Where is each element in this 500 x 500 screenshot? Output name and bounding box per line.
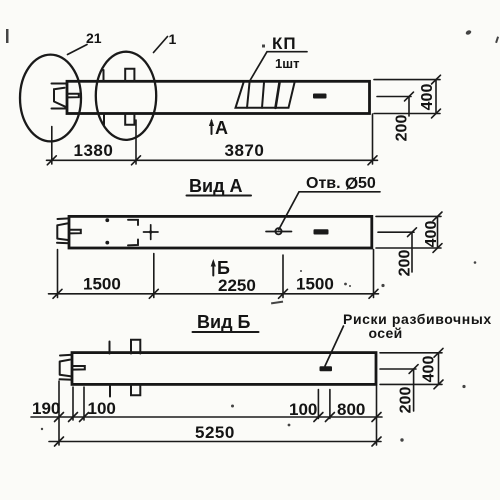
leader for riski label	[325, 326, 344, 366]
label 1	[169, 31, 177, 47]
view A: small fixture mark on beam	[314, 229, 329, 234]
plan view: beam body outline	[67, 81, 370, 113]
view B: overall dimension slash ticks	[55, 437, 382, 446]
svg-text:А: А	[215, 118, 228, 138]
plan view: right top extension line	[374, 79, 440, 81]
view B: beam body outline	[72, 353, 376, 385]
view A: tenon T-slot detail	[69, 230, 81, 234]
plan view: 400 dimension text	[419, 84, 436, 111]
view B: 400 dimension line	[434, 348, 443, 388]
view A: extension line at 2250	[282, 255, 284, 298]
view B: left tenon	[60, 355, 73, 380]
KP embedded plate hatch	[236, 83, 295, 108]
svg-text:1шт: 1шт	[275, 56, 299, 71]
svg-text:3870: 3870	[225, 141, 265, 160]
label riski razbivochnykh osey	[343, 311, 492, 341]
view B: right top extension line	[380, 352, 442, 354]
view A: 200 dimension text	[397, 250, 414, 277]
plan view: extension line at 1380	[135, 120, 137, 164]
view B: bottom lifting loop	[131, 384, 140, 395]
view B: tenon T-slot detail	[72, 366, 85, 370]
view B: 200 dimension text	[398, 387, 415, 414]
svg-text:Риски разбивочных: Риски разбивочных	[343, 311, 492, 327]
view A: bottom dimension line	[49, 293, 379, 295]
view A: extension line right	[373, 250, 375, 298]
svg-text:Б: Б	[217, 258, 230, 278]
svg-text:Вид А: Вид А	[189, 176, 243, 196]
plan view: bottom lifting loop	[125, 114, 134, 125]
plan view: axis tick marks at x=102	[103, 70, 106, 125]
view B: extension line riska right	[329, 390, 331, 419]
svg-text:21: 21	[86, 30, 102, 46]
view A: center cross marker	[144, 225, 159, 240]
leader for KP label	[250, 52, 307, 81]
view A: left tenon	[57, 218, 69, 243]
view A: 400 dimension text	[423, 221, 440, 248]
view B: right extension line long	[376, 386, 378, 445]
svg-text:100: 100	[88, 399, 116, 418]
svg-text:200: 200	[394, 115, 411, 142]
plan view: right mid extension line (200 level)	[377, 96, 411, 98]
view B: 200 dimension line	[409, 365, 418, 411]
view B: right mid extension line	[380, 368, 416, 370]
plan view: dimension slash ticks	[47, 156, 377, 165]
svg-text:1380: 1380	[74, 141, 114, 160]
view A: right top extension line	[376, 215, 441, 217]
svg-text:400: 400	[419, 84, 436, 111]
svg-text:1: 1	[169, 31, 177, 47]
leader for label 21	[68, 45, 88, 55]
view A: hole (Otv d50)	[266, 228, 292, 234]
view B: chain dimension line	[31, 416, 382, 418]
plan view: left tenon stub lines	[52, 84, 68, 109]
dimension text 800	[337, 400, 365, 419]
view B: extension line at 100 left	[83, 387, 85, 420]
view A: beam body outline	[69, 216, 372, 248]
view A: hidden plate dashed corners	[128, 220, 138, 246]
svg-text:Вид Б: Вид Б	[197, 312, 250, 332]
plan view: right bottom extension line	[374, 113, 440, 115]
dimension text 100 right	[289, 400, 317, 419]
view B: top lifting loop	[131, 340, 140, 354]
dimension text 1380	[74, 141, 114, 160]
plan view: tenon T-slot detail	[67, 94, 79, 98]
view B: chain dimension slash ticks	[55, 413, 382, 422]
view B: overall dimension line 5250	[49, 441, 381, 443]
svg-text:осей: осей	[369, 325, 403, 341]
view A title	[187, 176, 252, 196]
view A: extension line at 1500	[153, 254, 155, 298]
leader for Otv label	[279, 192, 380, 230]
plan view: extension line below ellipse 21	[51, 127, 53, 165]
svg-text:1500: 1500	[296, 275, 334, 294]
dimension text 3870	[225, 141, 265, 160]
svg-text:КП: КП	[272, 34, 297, 53]
label Otv d50	[306, 174, 376, 193]
label 1sht	[275, 56, 299, 71]
view A: section arrow B	[211, 258, 230, 278]
label KP	[272, 34, 297, 53]
svg-text:400: 400	[421, 356, 438, 383]
view A: right mid extension line	[378, 231, 414, 233]
plan view: 200 dimension text	[394, 115, 411, 142]
callout ellipse 21	[20, 55, 81, 142]
view A: right bottom extension line	[376, 247, 441, 249]
svg-text:Отв.: Отв.	[306, 175, 341, 192]
dimension text 100 left	[88, 399, 116, 418]
svg-text:190: 190	[32, 399, 60, 418]
dimension text 1500 right	[296, 275, 334, 294]
svg-text:2250: 2250	[218, 276, 256, 295]
plan view: top lifting loop	[125, 69, 134, 81]
plan view: section arrow A	[209, 118, 228, 138]
svg-text:1500: 1500	[83, 275, 121, 294]
svg-text:100: 100	[289, 400, 317, 419]
view B title	[193, 312, 259, 332]
svg-text:800: 800	[337, 400, 365, 419]
view A: extension line left	[57, 250, 59, 298]
svg-text:50: 50	[358, 175, 376, 192]
plan view: bottom dimension line	[47, 159, 378, 161]
view B: right bottom extension line	[380, 383, 442, 385]
view B: left extension line long	[58, 381, 60, 445]
svg-text:200: 200	[398, 387, 415, 414]
plan view: small fixture mark on beam	[313, 94, 327, 99]
plan view: extension line below beam right end	[372, 114, 374, 164]
svg-text:200: 200	[397, 250, 414, 277]
dimension text 190	[32, 399, 60, 418]
dimension text 5250	[195, 423, 235, 442]
svg-text:Ø: Ø	[345, 174, 358, 193]
dimension text 1500 left	[83, 275, 121, 294]
svg-text:400: 400	[423, 221, 440, 248]
svg-text:5250: 5250	[195, 423, 235, 442]
leader for label 1	[154, 37, 168, 53]
label 21	[86, 30, 102, 46]
view A: dimension slash ticks	[53, 289, 378, 298]
plan view: 200 dimension line	[405, 92, 414, 116]
callout ellipse 1	[96, 52, 156, 140]
view A: 400 dimension line	[433, 212, 442, 252]
plan view: 400 dimension line	[432, 75, 441, 118]
dimension text 2250	[218, 276, 256, 295]
view B: extension line riska left	[317, 390, 319, 419]
view A: loop position dots	[105, 218, 109, 244]
view B: extension line at 190	[72, 387, 74, 420]
view B: axis tick marks at x=108.5	[109, 342, 112, 397]
view B: riska mark on beam	[320, 366, 333, 371]
view A: 200 dimension line	[408, 228, 417, 272]
view B: 400 dimension text	[421, 356, 438, 383]
plan view: tenon key polygon	[54, 88, 66, 107]
